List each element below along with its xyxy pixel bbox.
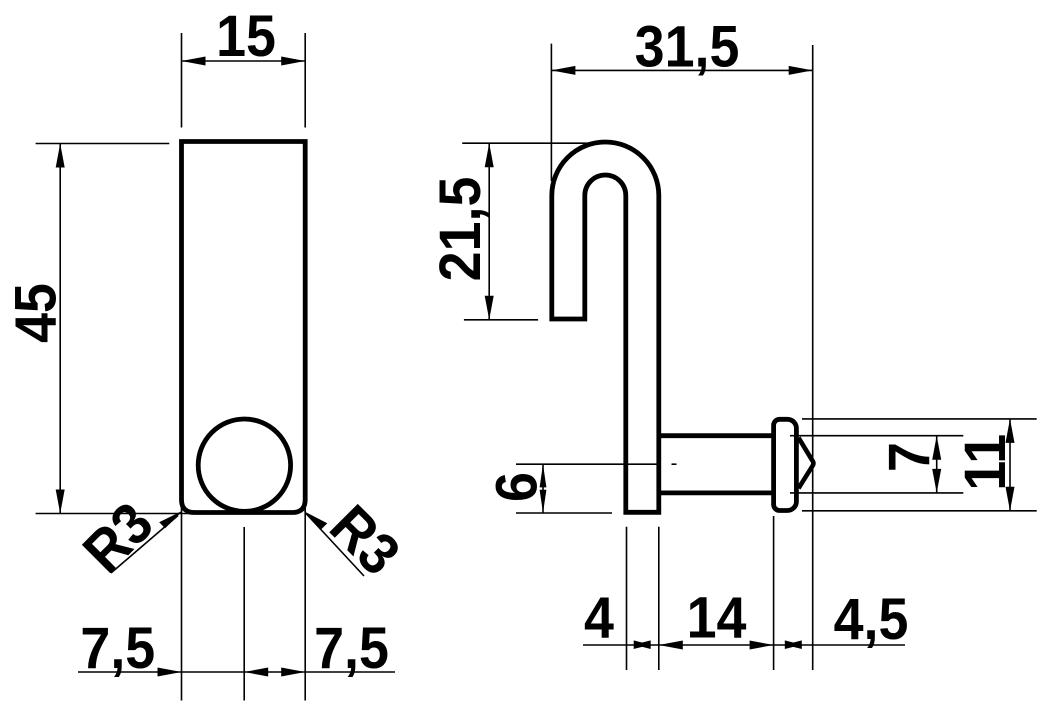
svg-text:7,5: 7,5 — [314, 615, 389, 681]
dimension 7 extension line top — [790, 435, 963, 437]
dimension 31,5 arrow right — [789, 66, 813, 75]
bottom dims: extension line bar right — [658, 527, 660, 670]
svg-text:11: 11 — [952, 434, 1018, 491]
dimension 7 line — [936, 436, 938, 493]
dimension 6 arrow up — [540, 464, 547, 487]
svg-text:4: 4 — [584, 584, 614, 650]
dimension 45 extension line bottom — [36, 513, 191, 515]
dimension 7,5 line — [78, 671, 395, 673]
side view hook outline — [552, 142, 659, 512]
dimension 15 arrow right — [281, 57, 305, 66]
dimension 15 arrow left — [182, 57, 206, 66]
bottom dimension line (4 / 14 / 4,5) — [583, 644, 905, 646]
dimension 7,5 outside arrow at left — [158, 668, 182, 677]
svg-text:14: 14 — [687, 584, 747, 650]
dimension 31,5 line — [551, 69, 812, 71]
svg-text:45: 45 — [2, 283, 68, 343]
dimension 15 extension line right — [304, 33, 306, 128]
radius leader R3 right arrow — [304, 511, 328, 529]
dimension 11 extension line top — [802, 418, 1037, 420]
radius leader R3 left line — [111, 516, 178, 574]
circle (pin end view) — [198, 419, 290, 511]
svg-text:7,5: 7,5 — [80, 615, 155, 681]
front view outline (rounded-bottom rectangle) — [182, 142, 306, 513]
dimension 14 arrow right — [750, 641, 774, 650]
svg-text:7: 7 — [876, 442, 942, 472]
dimension 11 arrow down — [1006, 487, 1015, 511]
dimension 45 arrow bottom — [56, 490, 65, 514]
dimension 31,5 extension line left — [550, 44, 552, 181]
dimension 6 arrow down — [540, 490, 547, 513]
dimension 45 line — [59, 144, 61, 514]
dimension 4,5 bowtie arrow left — [785, 640, 802, 649]
dimension 7 arrow down — [932, 469, 941, 493]
radius leader R3 left arrow — [159, 511, 183, 529]
dimension 45 extension line top — [36, 143, 170, 145]
dimension 21,5 arrow top — [485, 143, 494, 167]
dimension 21,5 line — [488, 143, 490, 320]
dimension 6 extension line bottom — [516, 512, 612, 514]
dimension 15 line — [182, 60, 306, 62]
svg-text:21,5: 21,5 — [427, 177, 493, 282]
dimension 7 extension line bottom — [790, 492, 963, 494]
dimension 7,5 extension line center — [243, 527, 245, 701]
dimension 7,5 extension line left — [181, 502, 183, 701]
radius leader R3 right line — [306, 514, 364, 577]
pin shaft top line — [659, 433, 774, 438]
dimension 7,5 extension line right — [304, 502, 306, 701]
dimension 6 line — [542, 464, 544, 513]
dimension 21,5 arrow bottom — [485, 296, 494, 320]
svg-text:31,5: 31,5 — [635, 13, 740, 79]
dimension 31,5 extension line right (long, shared with 4,5) — [812, 45, 814, 670]
svg-text:4,5: 4,5 — [834, 586, 909, 652]
pin head (flange) — [774, 419, 797, 510]
pin cone tip — [799, 438, 814, 489]
dimension 21,5 extension line bottom — [464, 319, 538, 321]
dimension 21,5 extension line top — [462, 142, 593, 144]
dimension 4 bowtie arrow right — [634, 640, 651, 649]
bottom dims: extension line head left — [773, 516, 775, 670]
dimension 11 arrow up — [1006, 419, 1015, 443]
dimension 7,5 arrow right pointing right — [281, 668, 305, 677]
svg-text:15: 15 — [216, 3, 276, 69]
dimension 45 arrow top — [56, 144, 65, 168]
dimension 4 bowtie arrow left — [634, 640, 651, 649]
dimension 14 arrow left — [659, 641, 683, 650]
pin centre line dot — [672, 463, 677, 465]
svg-text:6: 6 — [483, 472, 549, 502]
dimension 7 arrow up — [932, 436, 941, 460]
pin shaft bottom line — [659, 490, 774, 495]
dimension 15 extension line left — [181, 33, 183, 128]
dimension 4,5 bowtie arrow right — [785, 640, 802, 649]
dimension 7,5 arrow center pointing left — [244, 668, 268, 677]
dimension 11 line — [1009, 419, 1011, 511]
dimension 11 extension line bottom — [802, 510, 1037, 512]
pin centre line — [516, 463, 660, 465]
bottom dims: extension line bar left — [626, 527, 628, 670]
dimension 31,5 arrow left — [551, 66, 575, 75]
